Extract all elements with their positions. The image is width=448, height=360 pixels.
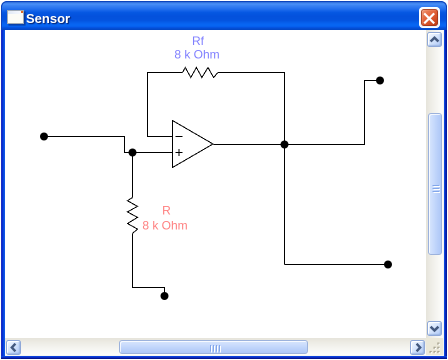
right border: [443, 30, 448, 359]
op-amp U1: [173, 121, 214, 168]
scrollbar down button: [427, 321, 442, 336]
close button: [419, 7, 440, 28]
wire node B to top-right terminal: [285, 81, 381, 145]
vertical scrollbar track: [426, 30, 444, 338]
wire Rf to node B: [218, 73, 285, 145]
node: bottom-right terminal: [384, 261, 392, 269]
scrollbar corner resize grip: [426, 338, 444, 355]
window icon: [7, 10, 24, 24]
node B junction: [281, 141, 289, 149]
horizontal scrollbar track: [5, 338, 426, 355]
horizontal scrollbar thumb: [119, 340, 308, 355]
resistor Rf: [183, 68, 218, 78]
svg-text:Rf: Rf: [192, 34, 205, 48]
bottom border: [1, 356, 447, 359]
wire op-amp minus input to feedback: [148, 73, 183, 137]
wire node A down to R: [132, 153, 134, 198]
wire input to node A: [45, 137, 133, 153]
node A junction: [129, 149, 137, 157]
left border: [0, 30, 5, 359]
wire to bottom-right terminal: [285, 264, 389, 266]
svg-text:R: R: [162, 204, 171, 218]
svg-text:8 k Ohm: 8 k Ohm: [142, 219, 187, 233]
svg-text:8 k Ohm: 8 k Ohm: [174, 48, 219, 62]
wire node B down: [284, 145, 286, 265]
node: bottom-left terminal: [161, 292, 169, 300]
resistor R: [128, 198, 138, 234]
scrollbar left button: [6, 340, 21, 355]
window title "Sensor": [26, 3, 70, 33]
scrollbar right button: [410, 340, 425, 355]
node: top-right terminal: [376, 77, 384, 85]
scrollbar up button: [427, 32, 442, 47]
wire R to bottom-left terminal: [133, 234, 165, 297]
node: input terminal: [40, 133, 48, 141]
vertical scrollbar thumb: [428, 113, 442, 255]
title bar: [1, 1, 447, 30]
wire node A to op-amp plus input: [133, 152, 173, 154]
wire op-amp output: [214, 144, 285, 146]
